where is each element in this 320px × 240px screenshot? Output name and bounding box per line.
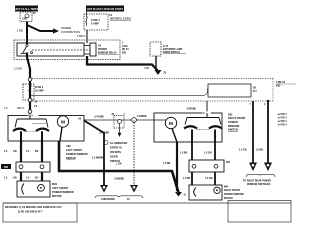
wires to motor left: [20, 172, 22, 181]
svg-text:C/B1: C/B1: [22, 19, 28, 21]
svg-text:2) RD 1/98 5/98 B 04-7: 2) RD 1/98 5/98 B 04-7: [18, 211, 43, 214]
svg-text:.5 BN/BK: .5 BN/BK: [114, 178, 124, 180]
thick ground wire right: [176, 142, 178, 191]
svg-text:POWER: POWER: [98, 49, 107, 51]
svg-text:S81: S81: [228, 113, 233, 116]
svg-text:1.5 BN/BK: 1.5 BN/BK: [92, 157, 104, 159]
svg-text:2 RD-A2: 2 RD-A2: [276, 81, 286, 84]
svg-text:.5 RD/BK: .5 RD/BK: [137, 116, 147, 118]
svg-text:2.5 RD: 2.5 RD: [14, 66, 22, 70]
svg-text:1.5 GN: 1.5 GN: [204, 152, 212, 154]
arrow to rear switches 1: [249, 163, 257, 172]
coil ground wire thick bus: [87, 56, 158, 71]
svg-text:1.5 GN: 1.5 GN: [205, 178, 213, 180]
thick wire from switch unit to ground C: [84, 121, 104, 186]
svg-text:◄2 RD 4: ◄2 RD 4: [277, 113, 287, 116]
brace under grounds: [95, 196, 143, 198]
dashed bus lower: [32, 100, 273, 102]
connector on spine below fuse2: [28, 98, 32, 102]
right connector switch box: [189, 160, 224, 172]
svg-text:C203: C203: [122, 46, 128, 48]
switch unit S81 box: [154, 113, 222, 142]
winding structure left: [13, 116, 49, 132]
ground D: [130, 185, 138, 193]
svg-text:1.5 BN: 1.5 BN: [256, 149, 264, 151]
dashed bus right edge: [272, 79, 274, 102]
svg-text:POWER: POWER: [228, 121, 238, 124]
svg-text:M: M: [61, 120, 65, 125]
svg-text:M41: M41: [224, 185, 229, 188]
S-76 ground wire: [155, 56, 157, 70]
bottom right box: [228, 201, 291, 223]
svg-text:1.5 GN: 1.5 GN: [239, 149, 247, 151]
connector A circle: [132, 118, 137, 123]
svg-text:MOTOR: MOTOR: [52, 195, 62, 198]
svg-text:HOT AT ALL TIMES: HOT AT ALL TIMES: [15, 7, 39, 11]
svg-text:WINDOW: WINDOW: [228, 125, 240, 128]
motor M40 symbol: [57, 116, 68, 127]
svg-text:BK: BK: [35, 151, 39, 153]
svg-text:S80: S80: [4, 166, 9, 169]
left connector switch box: [16, 162, 50, 172]
svg-text:◄2 RD 4: ◄2 RD 4: [277, 117, 287, 120]
switch S-76: [150, 42, 186, 56]
junction connector on spine: [28, 78, 32, 82]
svg-text:RIGHT FRONT: RIGHT FRONT: [228, 117, 246, 120]
junction dot on bus: [267, 100, 270, 103]
wires to right motor: [191, 172, 193, 185]
connector C2 on spine: [28, 110, 32, 114]
svg-text:PD 23: PD 23: [122, 49, 129, 51]
wire into right box: [154, 119, 166, 121]
svg-text:DISTRIBUTION: DISTRIBUTION: [61, 30, 80, 34]
svg-text:30 4: 30 4: [28, 115, 33, 118]
svg-text:M40: M40: [52, 183, 58, 186]
svg-text:LEFT FRONT: LEFT FRONT: [66, 149, 82, 152]
svg-text:.5 RD/YL: .5 RD/YL: [76, 35, 86, 38]
svg-text:ENTRY IS: ENTRY IS: [110, 147, 122, 150]
relay A5 contact switch: [21, 44, 33, 53]
relay A5 outline: [14, 40, 120, 60]
illuminated entry note: [104, 141, 127, 164]
svg-text:1.5: 1.5: [4, 107, 8, 110]
wires from bus to rear switches: [252, 101, 254, 163]
svg-text:5 AMP: 5 AMP: [91, 23, 99, 26]
main spine below relay: [27, 53, 30, 116]
svg-text:S81: S81: [226, 162, 231, 164]
svg-text:WINDOW RELAY: WINDOW RELAY: [98, 51, 117, 54]
svg-text:FUSE 2: FUSE 2: [35, 87, 44, 89]
relay A5 linkage: [32, 49, 90, 51]
svg-text:ON WITH: ON WITH: [110, 151, 121, 154]
svg-text:B01: B01: [122, 53, 127, 55]
brace under arrows: [246, 174, 275, 177]
svg-text:SWITCH: SWITCH: [66, 157, 76, 160]
svg-text:1 RD: 1 RD: [17, 29, 23, 33]
svg-text:LEFT FRONT: LEFT FRONT: [52, 187, 68, 190]
winding structure right: [184, 113, 222, 130]
svg-text:1.5 BK: 1.5 BK: [183, 178, 191, 180]
svg-text:REVISIONS: 1) AS BEFORE 10/94: REVISIONS: 1) AS BEFORE 10/94 COMPLETE C…: [5, 206, 62, 209]
ground C: [100, 185, 108, 193]
svg-text:GN: GN: [13, 151, 17, 153]
svg-text:WINDOW SWITCHES: WINDOW SWITCHES: [247, 184, 271, 186]
thin wire bus middle: [31, 89, 208, 96]
door jamb connector dashed box: [112, 114, 126, 137]
svg-text:SWITCH: SWITCH: [228, 129, 238, 132]
wires right box to switch: [191, 142, 193, 160]
relay A5 contact box: [17, 43, 84, 56]
ground 31 (left): [155, 70, 162, 75]
arrow to rear switches 2: [264, 163, 272, 172]
svg-text:◄2 RD 4: ◄2 RD 4: [277, 124, 287, 127]
svg-text:1.5 BK: 1.5 BK: [180, 152, 188, 154]
svg-text:1.5 BN: 1.5 BN: [163, 163, 171, 165]
svg-text:HOT IN ACCY, RUN OR START: HOT IN ACCY, RUN OR START: [87, 8, 123, 11]
svg-text:.5 RD/BK: .5 RD/BK: [186, 108, 196, 110]
motor M41 box: [189, 185, 222, 200]
dashed wire to ground D: [133, 122, 135, 185]
wire from bus to right unit: [206, 101, 208, 113]
svg-text:M: M: [169, 121, 173, 126]
arrow branch to power distribution: [27, 25, 53, 31]
svg-text:S-76: S-76: [163, 46, 169, 48]
svg-text:TO RIGHT REAR POWER: TO RIGHT REAR POWER: [243, 179, 271, 182]
svg-text:B03: B03: [276, 86, 281, 88]
svg-text:.5 BN: .5 BN: [144, 68, 150, 70]
wires box to switch left: [20, 141, 22, 162]
winding pins right: [191, 130, 193, 143]
winding pins: [20, 131, 22, 141]
svg-text:A: A: [133, 118, 135, 122]
switch unit S80 box: [8, 116, 84, 142]
M pin wire: [60, 127, 62, 141]
ground 31 (right): [175, 192, 182, 197]
svg-text:POWER WINDOW: POWER WINDOW: [224, 194, 245, 196]
svg-text:FUSE 1: FUSE 1: [91, 19, 101, 22]
header HOT IN ACCY RUN OR START: [86, 6, 124, 12]
dashed bus upper: [32, 78, 273, 80]
relay A5 coil: [84, 43, 96, 56]
svg-text:◄2 RD 4: ◄2 RD 4: [277, 120, 287, 123]
svg-text:POWER WINDOW: POWER WINDOW: [66, 153, 88, 156]
header HOT AT ALL TIMES: [15, 6, 39, 12]
black label S80: [1, 164, 11, 169]
fuse F2: [23, 84, 44, 100]
svg-text:RD/YL: RD/YL: [17, 107, 25, 110]
svg-text:GN: GN: [13, 177, 17, 179]
thick L wire to ground: [59, 141, 179, 193]
motor M41 symbol: [165, 117, 176, 128]
revisions box: [3, 203, 77, 222]
svg-text:30 AMP: 30 AMP: [35, 90, 44, 93]
svg-text:ILLUMINATED: ILLUMINATED: [110, 142, 127, 145]
pin gap label: [28, 114, 39, 117]
svg-text:MOTOR: MOTOR: [224, 198, 233, 200]
svg-text:.5 PU/BK: .5 PU/BK: [94, 117, 104, 119]
svg-text:A80: A80: [66, 145, 71, 148]
svg-text:1 GN: 1 GN: [116, 163, 122, 165]
svg-text:EXTERIOR LAMP: EXTERIOR LAMP: [163, 48, 183, 51]
svg-text:POWER: POWER: [61, 26, 71, 30]
svg-text:RIGHT FRONT: RIGHT FRONT: [224, 190, 241, 192]
wire fuse1 to relay coil: [86, 30, 88, 43]
svg-text:BU: BU: [35, 177, 39, 179]
in-line fuse box right: [208, 84, 251, 97]
svg-text:POWER WINDOW: POWER WINDOW: [52, 191, 74, 194]
svg-text:30 2: 30 2: [200, 113, 205, 115]
circuit breaker CB1: [20, 12, 36, 22]
motor M40 box: [17, 181, 50, 197]
wire to illuminated entry: [84, 119, 154, 121]
bottom baseline: [3, 202, 291, 204]
M pin wire right: [172, 129, 177, 143]
svg-text:CONTINUED: CONTINUED: [101, 199, 115, 201]
svg-text:DOOR: DOOR: [110, 156, 118, 159]
wire from C/B down: [26, 22, 28, 45]
fuse F1: [84, 12, 132, 30]
